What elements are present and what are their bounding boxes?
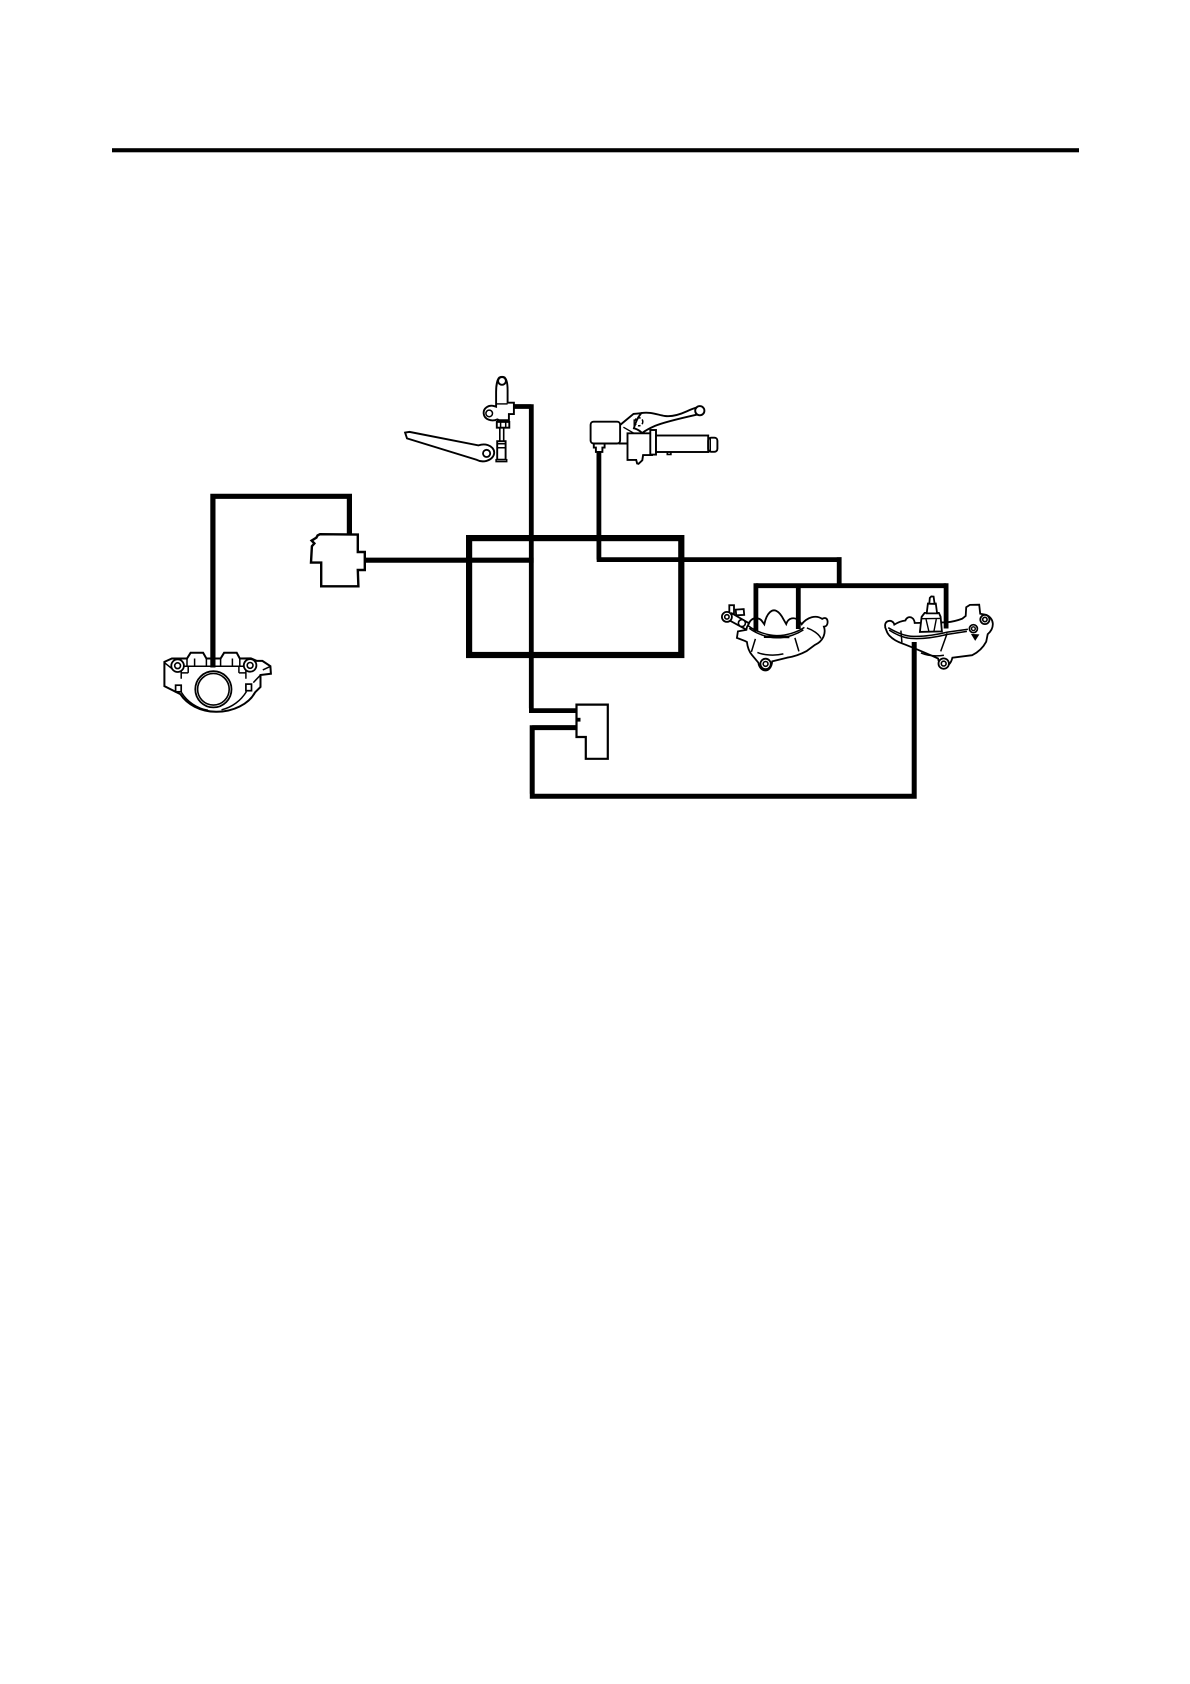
delay valve (lower component) xyxy=(577,705,608,759)
rear master cylinder xyxy=(484,377,514,462)
wire: front master cylinder line L2 to front caliper manifold xyxy=(597,452,946,586)
wire: rear master cylinder output line L1 down to lower valve xyxy=(511,404,577,710)
rear brake pedal xyxy=(405,432,494,461)
wire: rear caliper riser up, across, down into proportioning valve xyxy=(210,494,349,668)
wire: proportioning valve output to L1 junction xyxy=(365,558,534,563)
wire: feed drop to front left caliper port A xyxy=(754,583,759,631)
hydraulic unit box xyxy=(469,538,681,655)
wire: bottom loop from lower valve to front right caliper xyxy=(530,642,914,799)
wire: feed drop to front right caliper xyxy=(944,583,949,628)
front master cylinder body xyxy=(591,413,644,452)
header rule xyxy=(112,148,1079,152)
proportioning valve xyxy=(311,534,365,586)
rear brake caliper xyxy=(164,653,271,712)
front left brake caliper xyxy=(722,605,828,670)
front right brake caliper xyxy=(885,596,993,668)
wire: feed drop to front left caliper port B xyxy=(796,586,801,629)
handlebar grip and lever perch xyxy=(628,430,718,464)
front brake lever xyxy=(634,406,705,433)
